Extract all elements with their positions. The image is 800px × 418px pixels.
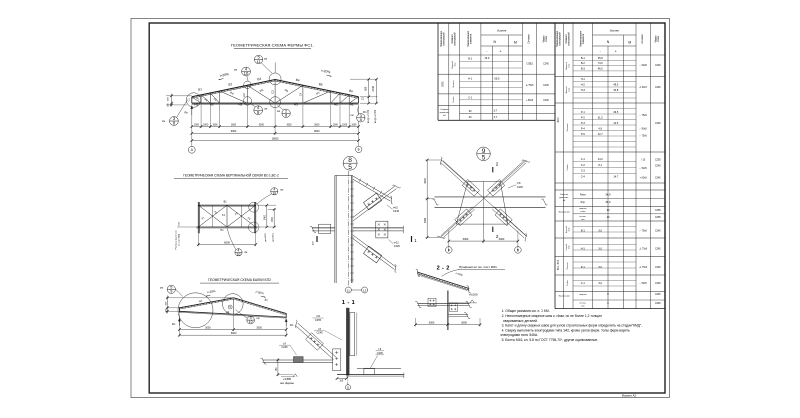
svg-text:см: см xyxy=(244,251,247,254)
svg-text:9000: 9000 xyxy=(231,130,237,133)
svg-text:10: 10 xyxy=(249,320,253,324)
svg-text:С245: С245 xyxy=(317,332,324,335)
svg-text:3,0: 3,0 xyxy=(598,265,602,269)
svg-text:Н-1: Н-1 xyxy=(581,247,586,251)
svg-text:С245: С245 xyxy=(655,249,661,251)
svg-text:С255: С255 xyxy=(655,160,661,162)
truss top chord hatch xyxy=(193,96,194,98)
svg-text:Н-3: Н-3 xyxy=(581,88,586,92)
svg-text:74,6: 74,6 xyxy=(598,61,604,65)
svg-text:⌐ 75х6: ⌐ 75х6 xyxy=(640,136,648,138)
svg-text:2400: 2400 xyxy=(265,214,267,220)
svg-text:∠ 75х6: ∠ 75х6 xyxy=(526,84,534,87)
BP2 tie xyxy=(179,311,286,317)
svg-text:для ВС2: для ВС2 xyxy=(265,232,267,241)
svg-text:⌐ 75х6: ⌐ 75х6 xyxy=(640,231,648,233)
BP2 detail circle apex xyxy=(223,294,244,315)
svg-text:12,7: 12,7 xyxy=(598,132,604,136)
svg-text:конструкций: конструкций xyxy=(568,32,571,46)
svg-text:С245: С245 xyxy=(655,65,661,67)
svg-text:С2: С2 xyxy=(242,93,246,97)
2-2 post xyxy=(446,291,448,331)
X-detail section marks 2 xyxy=(492,167,494,172)
svg-text:3. Катет и длину сварных швов: 3. Катет и длину сварных швов для узлов … xyxy=(502,324,643,328)
svg-text:Р-1: Р-1 xyxy=(581,265,586,269)
VS end posts xyxy=(197,202,199,233)
2-2 bottom dims xyxy=(415,318,417,327)
1-1 bottom balloon 11 xyxy=(347,375,349,384)
svg-text:на ур.+9,470: на ур.+9,470 xyxy=(375,109,377,123)
svg-text:пояс: пояс xyxy=(569,245,571,249)
VS left small dim xyxy=(177,226,197,228)
1-1 column side plate xyxy=(350,313,355,356)
svg-text:С3: С3 xyxy=(270,90,274,94)
svg-text:С245: С245 xyxy=(655,166,661,168)
svg-text:давление,: давление, xyxy=(440,112,450,114)
truss FS1 bottom chord xyxy=(192,102,359,104)
svg-text:Н3: Н3 xyxy=(238,102,242,106)
X-detail center lines xyxy=(441,160,526,237)
svg-text:25,8: 25,8 xyxy=(598,56,604,60)
svg-text:Н-1: Н-1 xyxy=(468,77,473,81)
svg-text:С-1: С-1 xyxy=(468,96,473,100)
svg-text:стали: стали xyxy=(546,35,548,42)
X-detail central gusset xyxy=(456,181,507,224)
svg-text:В-3: В-3 xyxy=(581,66,586,70)
1-1 dim 150 xyxy=(277,358,279,376)
svg-text:пояс: пояс xyxy=(569,88,571,92)
svg-text:I 10: I 10 xyxy=(641,160,646,162)
section mark 1 left xyxy=(316,236,318,242)
svg-text:Н3: Н3 xyxy=(294,102,298,106)
svg-text:низ фермы: низ фермы xyxy=(280,381,294,385)
svg-text:Стойка: Стойка xyxy=(452,96,455,103)
svg-text:стали: стали xyxy=(658,35,660,42)
svg-text:В-1: В-1 xyxy=(581,229,586,233)
svg-text:Н-1: Н-1 xyxy=(581,77,586,81)
svg-text:11: 11 xyxy=(347,288,350,292)
svg-text:ГЕОМЕТРИЧЕСКАЯ СХЕМА ФЕРМЫ ФС1: ГЕОМЕТРИЧЕСКАЯ СХЕМА ФЕРМЫ ФС1. xyxy=(231,43,314,48)
X-detail arm lower-right xyxy=(492,209,524,238)
svg-text:34,9: 34,9 xyxy=(606,193,612,197)
VS callout 4/10 top xyxy=(271,188,278,195)
svg-text:Б: Б xyxy=(448,248,450,252)
svg-text:Н2: Н2 xyxy=(210,102,214,106)
svg-text:свариваемых деталей.: свариваемых деталей. xyxy=(503,319,538,323)
svg-text:Стойки: Стойки xyxy=(566,164,569,170)
svg-text:С-1: С-1 xyxy=(581,281,586,285)
svg-text:3000: 3000 xyxy=(463,237,469,241)
svg-text:см: см xyxy=(350,114,353,117)
svg-text:3000: 3000 xyxy=(424,217,427,223)
svg-text:С245: С245 xyxy=(393,210,400,213)
1-1 right horizontal member xyxy=(357,368,401,370)
svg-text:С245: С245 xyxy=(394,245,401,248)
svg-text:2 - 2: 2 - 2 xyxy=(437,265,450,271)
2-2 bolt group left xyxy=(428,298,436,306)
BP2 left dims xyxy=(166,297,234,299)
svg-text:Н1: Н1 xyxy=(194,102,198,106)
VS right dims 2400 1800 xyxy=(257,204,276,206)
truss left end height dims xyxy=(166,95,192,97)
BP2 middle strut xyxy=(233,299,235,315)
callout 3/8 left xyxy=(170,117,179,126)
svg-text:5: 5 xyxy=(482,154,486,161)
svg-text:М: М xyxy=(628,41,631,45)
callout 3/8 right xyxy=(357,114,365,122)
svg-text:Профнастил см. лист КМ1: Профнастил см. лист КМ1 xyxy=(459,265,497,269)
svg-text:см: см xyxy=(264,108,267,111)
VS bottom dim 6000 xyxy=(197,232,199,247)
svg-text:6000: 6000 xyxy=(224,240,230,244)
svg-text:Р-3: Р-3 xyxy=(581,121,586,125)
svg-text:1000: 1000 xyxy=(194,124,200,126)
svg-text:3000: 3000 xyxy=(429,321,435,325)
svg-text:Опорное: Опорное xyxy=(440,109,449,111)
svg-text:на ур.+7,970: на ур.+7,970 xyxy=(368,109,370,123)
X-detail axis circles xyxy=(446,247,453,254)
svg-text:пояс: пояс xyxy=(569,64,571,68)
svg-text:С245: С245 xyxy=(543,100,549,102)
node detail callout 8/5 xyxy=(343,156,357,170)
svg-text:Затяжка: Затяжка xyxy=(453,80,455,88)
svg-text:3000: 3000 xyxy=(424,178,427,184)
svg-text:В: В xyxy=(517,248,519,252)
X-detail horizontal chord xyxy=(435,196,546,198)
svg-text:9000: 9000 xyxy=(314,130,320,133)
svg-text:Опорное: Опорное xyxy=(560,194,569,196)
svg-text:10: 10 xyxy=(272,191,276,195)
svg-text:2: 2 xyxy=(496,161,499,166)
svg-text:ГЕОМЕТРИЧЕСКАЯ СХЕМА БАЛКИ БП2: ГЕОМЕТРИЧЕСКАЯ СХЕМА БАЛКИ БП2 xyxy=(208,278,271,282)
svg-text:В-1: В-1 xyxy=(581,56,586,60)
axis circle A xyxy=(188,146,195,153)
svg-text:5: 5 xyxy=(348,164,352,171)
svg-text:29,5: 29,5 xyxy=(613,110,619,114)
1-1 gusset lower xyxy=(333,349,341,371)
node detail column flanges xyxy=(334,176,336,284)
svg-text:см: см xyxy=(160,287,163,290)
svg-text:ВС1, ВС2: ВС1, ВС2 xyxy=(557,259,560,270)
svg-text:сварные: сварные xyxy=(579,294,587,296)
svg-text:34,8: 34,8 xyxy=(613,88,619,92)
svg-text:БП2: БП2 xyxy=(440,81,444,87)
svg-text:ФС1: ФС1 xyxy=(556,117,560,123)
BP2 callout 5/10 xyxy=(247,316,255,324)
callout 5/11 xyxy=(254,55,262,63)
svg-text:С245: С245 xyxy=(655,177,661,179)
svg-text:см: см xyxy=(280,189,283,192)
svg-text:С245: С245 xyxy=(655,231,661,233)
svg-text:5. Болты М16, кл. 5.8 по ГОСТ: 5. Болты М16, кл. 5.8 по ГОСТ 7798-70*, … xyxy=(502,338,599,342)
svg-text:14,5: 14,5 xyxy=(613,121,619,125)
node detail upper diagonal xyxy=(353,186,397,221)
svg-text:электродами типа Э46А.: электродами типа Э46А. xyxy=(500,333,538,337)
sheet outer edge xyxy=(131,19,670,398)
svg-text:8,1: 8,1 xyxy=(598,163,602,167)
svg-text:Rп: Rп xyxy=(363,110,367,114)
svg-text:Стойки: Стойки xyxy=(566,280,569,286)
svg-text:С245: С245 xyxy=(655,267,661,269)
svg-text:по черт. КМД: по черт. КМД xyxy=(179,233,181,246)
BP2 callout 5/9 xyxy=(167,285,175,293)
svg-text:34,9: 34,9 xyxy=(606,200,612,204)
truss web verticals xyxy=(200,95,202,103)
svg-text:Раскосы: Раскосы xyxy=(567,262,569,270)
1-1 left plate xyxy=(294,357,304,363)
svg-text:⌐ 90х5: ⌐ 90х5 xyxy=(640,129,648,131)
svg-text:⌐ 90х8: ⌐ 90х8 xyxy=(640,65,648,67)
svg-text:19,0: 19,0 xyxy=(484,56,490,60)
svg-text:∠ 75х6: ∠ 75х6 xyxy=(639,266,647,269)
svg-text:2400: 2400 xyxy=(372,85,375,91)
svg-text:3,0: 3,0 xyxy=(598,247,602,251)
svg-text:3,0: 3,0 xyxy=(598,281,602,285)
svg-text:М: М xyxy=(514,41,517,45)
svg-text:12: 12 xyxy=(363,288,367,292)
truss web diagonals left xyxy=(192,97,201,103)
svg-text:для ВС1: для ВС1 xyxy=(272,232,274,241)
svg-text:конструкций: конструкций xyxy=(559,32,562,46)
svg-text:Н-2: Н-2 xyxy=(581,82,586,86)
svg-text:⌐ 50х5: ⌐ 50х5 xyxy=(640,283,648,285)
svg-text:С245: С245 xyxy=(655,123,661,125)
2-2 bolt group right xyxy=(450,303,458,311)
svg-text:4. Сварку выполнить электродам: 4. Сварку выполнить электродами типа Э42… xyxy=(502,328,630,332)
svg-text:С255: С255 xyxy=(315,319,322,322)
svg-text:Б: Б xyxy=(358,148,360,152)
svg-text:пояс: пояс xyxy=(569,227,571,231)
svg-text:осталь-: осталь- xyxy=(579,303,586,305)
svg-text:С-3: С-3 xyxy=(581,169,586,173)
BP2 top chord hatch xyxy=(182,307,183,309)
svg-text:Rл: Rл xyxy=(172,322,176,326)
1-1 diagonal brace xyxy=(296,323,337,359)
svg-text:Р-1: Р-1 xyxy=(581,110,586,114)
VS diagonals xyxy=(198,205,227,227)
BP2 detail circle left xyxy=(178,293,213,328)
svg-text:ные: ные xyxy=(581,219,584,221)
svg-text:10: 10 xyxy=(244,71,249,76)
svg-text:Р-4: Р-4 xyxy=(581,126,586,130)
node detail tie right xyxy=(353,227,404,229)
svg-text:9: 9 xyxy=(170,289,172,294)
node detail tie left xyxy=(312,227,335,229)
svg-text:С255: С255 xyxy=(655,217,661,219)
node detail lower diagonal xyxy=(353,235,396,270)
svg-text:3000: 3000 xyxy=(499,237,505,241)
svg-text:∠ 75х6: ∠ 75х6 xyxy=(639,248,647,251)
svg-text:Rпр: Rпр xyxy=(581,202,586,204)
svg-text:Усилия: Усилия xyxy=(610,29,620,33)
svg-text:Р-2: Р-2 xyxy=(581,115,586,119)
2-2 lower member xyxy=(449,314,469,316)
1-1 left horizontal member xyxy=(263,359,333,361)
svg-text:3000: 3000 xyxy=(461,321,467,325)
svg-text:Сечение: Сечение xyxy=(642,34,644,44)
svg-text:см: см xyxy=(256,317,259,320)
svg-text:1000: 1000 xyxy=(333,124,339,126)
svg-text:2. Неполномерные сварные швы: 2. Неполномерные сварные швы к =4мм, но … xyxy=(502,314,603,318)
svg-text:6000: 6000 xyxy=(231,332,237,335)
svg-text:1000: 1000 xyxy=(351,124,357,126)
svg-text:3000: 3000 xyxy=(256,327,262,330)
svg-text:31,5: 31,5 xyxy=(598,115,604,119)
callout 4/8 xyxy=(254,106,263,115)
node detail column bolt ticks xyxy=(350,181,354,183)
svg-text:элемента: элемента xyxy=(471,33,473,44)
svg-text:см: см xyxy=(264,57,267,60)
VS mid-panel struts xyxy=(212,205,214,227)
svg-text:осталь-: осталь- xyxy=(579,216,586,218)
svg-text:Усилия: Усилия xyxy=(497,29,507,33)
svg-text:+6,000: +6,000 xyxy=(469,293,478,297)
X-detail arm upper-left xyxy=(443,161,475,190)
svg-text:3,0: 3,0 xyxy=(598,229,602,233)
node detail bottom balloons 11 12 xyxy=(345,287,351,293)
svg-text:Н2: Н2 xyxy=(334,102,338,106)
svg-text:+ 50х5: + 50х5 xyxy=(526,100,534,102)
svg-text:∠ 90х7: ∠ 90х7 xyxy=(639,86,647,89)
svg-text:конструкций: конструкций xyxy=(443,32,446,46)
svg-text:+: + xyxy=(500,49,502,53)
svg-text:С-4: С-4 xyxy=(581,175,586,179)
svg-text:3000: 3000 xyxy=(231,124,237,126)
svg-text:С-1: С-1 xyxy=(581,157,586,161)
svg-text:пояс: пояс xyxy=(454,63,456,67)
truss web diagonals right xyxy=(349,97,358,103)
svg-text:18000: 18000 xyxy=(272,137,280,140)
svg-text:С245: С245 xyxy=(543,85,549,87)
svg-text:10: 10 xyxy=(237,252,241,256)
svg-text:В-2: В-2 xyxy=(581,61,586,65)
svg-text:Формат А2: Формат А2 xyxy=(622,393,637,397)
drawing inner frame xyxy=(149,23,665,393)
node detail top chord stub xyxy=(353,176,392,201)
table 2 minor row lines xyxy=(573,59,636,61)
svg-text:С245: С245 xyxy=(517,186,524,189)
svg-text:3000: 3000 xyxy=(314,124,320,126)
svg-text:14,0: 14,0 xyxy=(598,157,604,161)
svg-text:С245: С245 xyxy=(543,63,549,65)
X-detail arm lower-left xyxy=(441,207,473,236)
svg-text:Р-5: Р-5 xyxy=(581,132,586,136)
svg-text:сварные: сварные xyxy=(579,208,587,210)
svg-text:t=8: t=8 xyxy=(517,182,521,185)
VS right corner node circles xyxy=(249,202,259,212)
svg-text:+3,880: +3,880 xyxy=(283,377,292,381)
svg-text:Rл: Rл xyxy=(184,111,188,115)
upper diagonal bolt plate xyxy=(363,193,381,210)
svg-text:⌐ 75х6: ⌐ 75х6 xyxy=(640,115,648,117)
svg-text:элемента: элемента xyxy=(583,33,585,44)
svg-text:1000: 1000 xyxy=(212,124,218,126)
truss dim row 2 xyxy=(192,132,359,134)
2-2 deck xyxy=(417,272,469,289)
svg-text:⌐ 50х5: ⌐ 50х5 xyxy=(640,168,648,170)
BP2 strut position balloon xyxy=(228,305,232,309)
svg-text:1000: 1000 xyxy=(342,124,348,126)
svg-text:С245: С245 xyxy=(655,87,661,89)
svg-text:3,7: 3,7 xyxy=(494,109,498,113)
svg-text:Раскосы: Раскосы xyxy=(567,123,569,131)
svg-text:В-1: В-1 xyxy=(468,56,473,60)
2-2 horizontal member xyxy=(418,303,470,305)
svg-text:см: см xyxy=(277,110,280,113)
X-detail callout 9/5 xyxy=(477,147,491,161)
BP2 top chord xyxy=(179,298,286,314)
svg-text:49,5: 49,5 xyxy=(613,82,619,86)
svg-text:см: см xyxy=(162,120,165,123)
section mark 1 xyxy=(411,236,413,242)
svg-text:+: + xyxy=(615,49,617,53)
svg-text:t 10: t 10 xyxy=(316,315,321,318)
1-1 base lines xyxy=(337,374,404,376)
node detail axis line xyxy=(347,171,349,287)
svg-text:1. Общие указания см. л. 1 КМ.: 1. Общие указания см. л. 1 КМ. xyxy=(502,309,550,313)
svg-text:конструкций: конструкций xyxy=(453,32,456,46)
svg-text:3000: 3000 xyxy=(205,327,211,330)
svg-text:Н1: Н1 xyxy=(226,310,230,314)
X-detail bottom dims xyxy=(448,231,450,253)
svg-text:4,9: 4,9 xyxy=(598,126,602,130)
truss dim row 1 xyxy=(192,126,359,128)
truss FS1 top chord xyxy=(192,80,359,97)
svg-text:С245: С245 xyxy=(655,303,661,305)
svg-text:давление,: давление, xyxy=(559,197,569,199)
X-detail left dims 3000 3000 xyxy=(426,160,428,238)
VS callout 4/10 bottom xyxy=(235,249,242,256)
svg-text:Распорки из уголков: Распорки из уголков xyxy=(175,231,177,250)
svg-text:стыки: стыки xyxy=(580,211,585,213)
svg-text:Верхний: Верхний xyxy=(451,61,454,68)
tie splice bolt plate xyxy=(376,221,388,238)
truss right height dims xyxy=(350,78,378,80)
truss end posts xyxy=(191,97,193,103)
svg-text:1 - 1: 1 - 1 xyxy=(342,300,355,306)
svg-text:3,7: 3,7 xyxy=(494,115,498,119)
callout 4/10 xyxy=(242,67,251,76)
svg-text:46,5: 46,5 xyxy=(598,66,604,70)
lower diagonal bolt plate xyxy=(363,246,381,263)
svg-text:3000: 3000 xyxy=(259,124,265,126)
svg-text:С245: С245 xyxy=(655,283,661,285)
svg-text:С245: С245 xyxy=(377,352,384,355)
svg-text:66,5: 66,5 xyxy=(495,76,501,80)
svg-text:+ 60х5: + 60х5 xyxy=(640,177,648,179)
truss node detail circles xyxy=(186,93,201,108)
callout 2/8 xyxy=(282,109,290,117)
svg-text:С-2: С-2 xyxy=(581,163,586,167)
VS top chord xyxy=(198,204,255,206)
svg-text:Фасонки,мм: Фасонки,мм xyxy=(558,295,570,298)
svg-text:ГЕОМЕТРИЧЕСКАЯ СХЕМА ВЕРТИКАЛЬ: ГЕОМЕТРИЧЕСКАЯ СХЕМА ВЕРТИКАЛЬНОЙ СВЯЗИ … xyxy=(183,173,279,177)
VS middle post xyxy=(226,205,228,227)
svg-text:3000: 3000 xyxy=(286,124,292,126)
svg-text:I 25Б1: I 25Б1 xyxy=(526,63,533,65)
svg-text:Фасонки,мм: Фасонки,мм xyxy=(558,211,570,214)
BP2 end posts xyxy=(178,307,180,312)
1-1 column dark bar xyxy=(346,308,349,375)
svg-text:Сечение: Сечение xyxy=(529,34,531,44)
1-1 dim 100 xyxy=(337,378,346,380)
svg-text:1800: 1800 xyxy=(272,216,274,222)
svg-text:14,7: 14,7 xyxy=(613,175,619,179)
svg-text:Н1: Н1 xyxy=(350,102,354,106)
apex leader vertical xyxy=(274,63,276,73)
VS bottom chord xyxy=(197,226,258,228)
svg-text:С245: С245 xyxy=(655,294,661,296)
